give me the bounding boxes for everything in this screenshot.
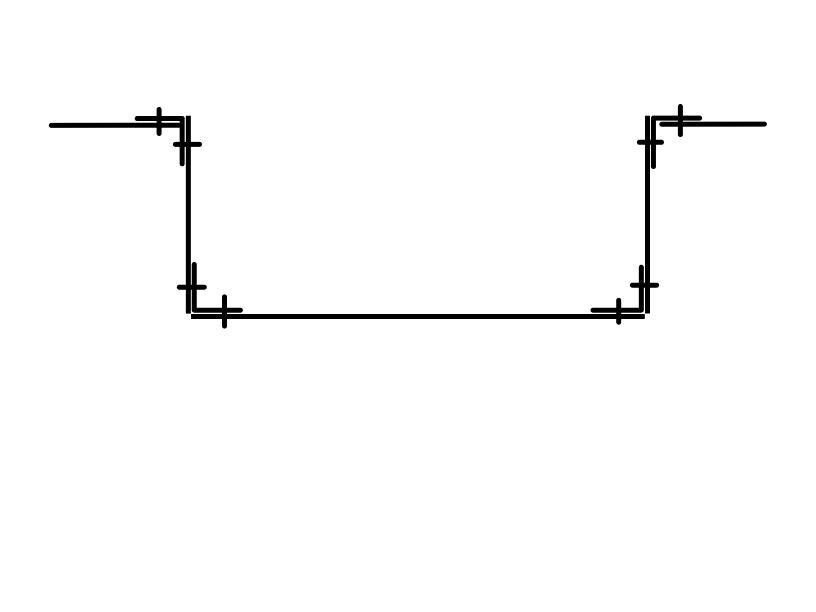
tick mark T3 bottom-left wall	[179, 285, 204, 290]
wire left top flange line	[51, 123, 179, 128]
wire top-left offset trace horizontal	[137, 116, 182, 121]
tick mark T7 top-right wall	[639, 140, 661, 145]
wire bottom line	[191, 314, 645, 319]
wire top-left offset trace vertical	[180, 119, 185, 164]
tick mark T2 top-left wall	[175, 142, 199, 147]
tick mark T4 bottom-left floor	[222, 297, 227, 326]
wire top-right offset trace horizontal	[654, 116, 700, 121]
tick mark T8 top-right flange	[678, 107, 683, 135]
wire top-right offset trace vertical	[651, 118, 656, 166]
wire bottom-right offset trace vertical	[639, 267, 644, 310]
wire bottom-right offset trace horizontal	[593, 308, 641, 313]
wire bottom-left offset trace horizontal	[194, 308, 240, 313]
tick mark T6 bottom-right wall	[632, 283, 656, 288]
wire right top flange line	[662, 122, 765, 127]
wire right wall vertical line	[645, 116, 650, 314]
wire left wall vertical line	[186, 116, 191, 314]
tick mark T5 bottom-right floor	[616, 300, 621, 322]
wire bottom-left offset trace vertical	[192, 265, 197, 311]
tick mark T1 top-left flange	[157, 110, 162, 134]
